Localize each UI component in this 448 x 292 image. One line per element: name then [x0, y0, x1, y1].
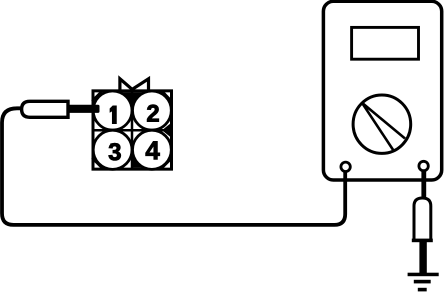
pin 3 number [109, 143, 121, 160]
ground symbol line 2 [414, 280, 431, 284]
junction wedge bottom-center [132, 157, 144, 168]
probe P2 bottom band [412, 239, 433, 243]
multimeter dial knob [353, 95, 411, 153]
probe P1 (left test probe) [22, 101, 68, 117]
ground symbol line 3 [418, 288, 427, 292]
connector corner chamfer bottom-right [161, 159, 172, 170]
pin 4 number [146, 141, 160, 159]
junction wedge top-center [122, 92, 145, 103]
ground symbol line 1 [408, 273, 439, 277]
probe P2 (ground test probe) body [414, 198, 431, 241]
connector corner chamfer bottom-left [92, 158, 104, 170]
wire: right terminal stem to probe P2 [421, 168, 426, 197]
wire: left terminal lead to probe P1 [2, 108, 345, 225]
pin 3 number (flat top bar) [110, 143, 118, 145]
left terminal [341, 162, 350, 171]
multimeter M1 body [323, 1, 441, 180]
probe P1 tip into pin 1 [68, 105, 100, 113]
connector corner chamfer top-left [92, 92, 102, 102]
junction wedge right-middle [162, 123, 171, 138]
connector center cross wires [93, 91, 172, 169]
right terminal [419, 161, 428, 170]
pin 1 cavity [93, 91, 132, 130]
pin 4 cavity [133, 130, 172, 169]
pin 2 number [147, 105, 159, 122]
probe P2 tip bar [419, 242, 426, 273]
multimeter display [352, 27, 419, 59]
connector corner chamfer top-right [163, 92, 172, 102]
connector J1 body [93, 91, 172, 169]
pin 3 cavity [93, 130, 132, 169]
pin 2 cavity [133, 91, 172, 130]
dial pointer [362, 103, 405, 151]
connector J1 latch [120, 79, 149, 92]
pin 1 number [110, 106, 116, 124]
